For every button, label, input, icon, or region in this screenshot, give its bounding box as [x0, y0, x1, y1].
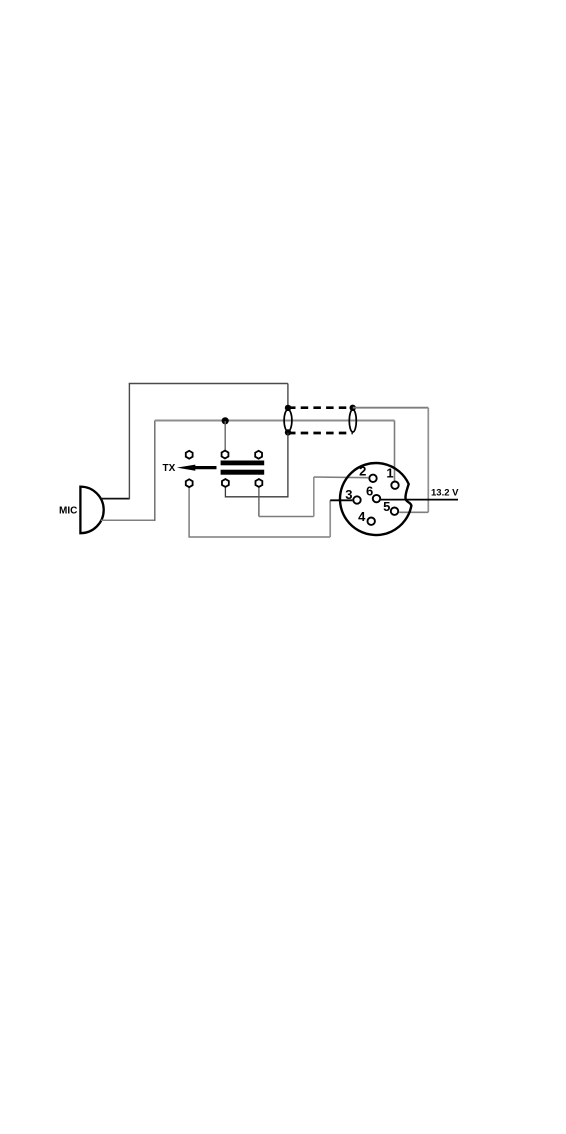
terminal bottom-middle — [222, 479, 229, 487]
junction dot shield left bottom — [285, 429, 291, 435]
terminal top-right — [255, 451, 262, 459]
wire down to pin 1 — [394, 421, 396, 482]
wire switch bottom-left to pin 3 — [189, 488, 330, 537]
wire shield right top to pin 5 — [353, 407, 429, 409]
pin 6 — [373, 495, 380, 502]
svg-text:MIC: MIC — [59, 506, 77, 517]
junction dot shield right top — [350, 405, 356, 411]
junction dot — [222, 417, 229, 424]
cable right ellipse — [349, 410, 356, 432]
svg-text:4: 4 — [358, 509, 366, 524]
contact bar upper — [221, 461, 265, 466]
TX arrow — [177, 465, 217, 471]
wire switch bottom-right to pin 2 — [258, 488, 260, 517]
cable shield dashed bottom — [288, 432, 353, 435]
svg-text:2: 2 — [359, 464, 366, 479]
terminal bottom-left — [186, 479, 193, 487]
pin 2 — [369, 475, 376, 482]
terminal bottom-right — [255, 479, 262, 487]
wire pin 6 to 13.2 V — [381, 499, 458, 501]
pin 3 — [353, 496, 360, 503]
svg-text:5: 5 — [383, 499, 390, 514]
wire MIC lower — [101, 519, 155, 521]
terminal top-middle — [222, 451, 229, 459]
wire shield left bottom down and to switch bottom-middle — [225, 433, 288, 497]
contact bar lower — [221, 470, 265, 475]
terminal top-left — [186, 451, 193, 459]
junction dot shield left top — [285, 405, 291, 411]
svg-text:13.2 V: 13.2 V — [431, 488, 459, 499]
pin 4 — [368, 518, 375, 525]
svg-text:6: 6 — [366, 483, 373, 498]
switch S1 (PTT) — [177, 451, 264, 488]
connector U1 outline with keyway notch — [340, 463, 411, 535]
svg-text:3: 3 — [345, 487, 352, 502]
wire top horizontal y383.5 — [129, 383, 288, 385]
pin 1 — [391, 482, 398, 489]
cable shield dashed top — [288, 406, 353, 409]
wire junction to switch top-middle terminal — [224, 421, 226, 450]
wire center conductor y420.5 — [155, 420, 395, 422]
cable left ellipse — [284, 410, 292, 432]
svg-text:1: 1 — [386, 466, 393, 481]
pin 5 — [391, 508, 398, 515]
microphone MIC — [80, 487, 103, 534]
svg-text:TX: TX — [163, 463, 176, 474]
wire vertical x154.8 up — [154, 421, 156, 521]
wire vertical x288 down to shield top — [287, 384, 289, 406]
wire MIC upper to top-left corner — [101, 498, 130, 500]
wire vertical x129 up — [128, 384, 130, 500]
